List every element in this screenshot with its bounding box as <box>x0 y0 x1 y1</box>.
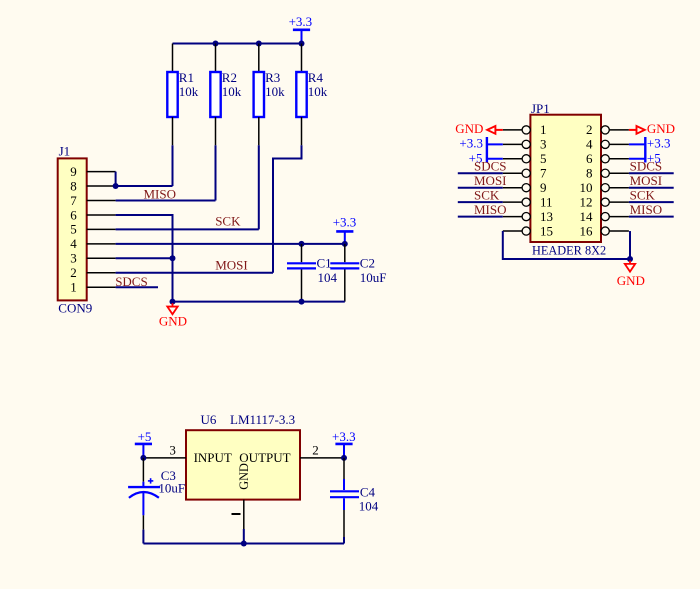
junction pins 8/9 <box>113 183 119 189</box>
JP1 pin 11 lead <box>503 201 522 203</box>
svg-text:6: 6 <box>70 207 77 222</box>
svg-text:MOSI: MOSI <box>630 173 663 188</box>
svg-text:14: 14 <box>580 209 594 224</box>
ground GND symbol (J1 section) <box>159 303 187 328</box>
JP1 pin 1 circle <box>522 126 530 134</box>
resistor R3 <box>254 44 264 146</box>
JP1 pin 4 lead <box>609 143 629 145</box>
svg-text:+3.3: +3.3 <box>332 429 356 444</box>
JP1 pin 5 lead <box>503 158 522 160</box>
wire U6 ground rail <box>143 543 344 545</box>
svg-text:SCK: SCK <box>215 214 241 229</box>
JP1 pin 12 circle <box>601 198 609 206</box>
wire pin15 to GND rail <box>503 231 630 259</box>
wire R1 to MISO row (pin8 net) <box>172 145 174 186</box>
wire GND rail under J1 section <box>173 301 345 303</box>
J1 pin 3 lead <box>87 257 116 259</box>
svg-text:1: 1 <box>540 122 547 137</box>
JP1 pin 2 lead <box>609 129 629 131</box>
svg-text:R3: R3 <box>265 70 280 85</box>
resistor R1 <box>167 44 177 146</box>
svg-text:3: 3 <box>169 442 176 457</box>
svg-text:SCK: SCK <box>630 188 656 203</box>
wire SCK left of JP1 <box>458 201 503 203</box>
U6 GND pin lead <box>243 500 245 529</box>
wire pin4 net +3.3 rail to C2 <box>116 243 345 245</box>
wire MISO left of JP1 <box>458 216 503 218</box>
svg-text:SDCS: SDCS <box>474 159 507 174</box>
JP1 pin 12 lead <box>609 201 629 203</box>
JP1 pin 6 lead <box>609 158 629 160</box>
junction GND rail at pin6 drop <box>170 299 176 305</box>
JP1 pin 10 circle <box>601 184 609 192</box>
junction +3.3 / C4 / pin2 <box>341 455 347 461</box>
wire MOSI right of JP1 <box>629 187 674 189</box>
svg-text:1: 1 <box>70 280 77 295</box>
capacitor C3 (polarized) <box>128 458 160 544</box>
svg-text:5: 5 <box>70 222 77 237</box>
svg-text:C2: C2 <box>360 256 375 271</box>
svg-text:10k: 10k <box>308 84 328 99</box>
power +3.3 left of pin 3 <box>459 135 502 162</box>
svg-text:GND: GND <box>617 273 645 288</box>
connector JP1 <box>530 115 601 242</box>
JP1 pin 11 circle <box>522 198 530 206</box>
JP1 pin 16 circle <box>601 227 609 235</box>
power GND arrow left of pin 1 <box>455 121 503 136</box>
svg-text:10k: 10k <box>265 84 285 99</box>
svg-text:GND: GND <box>159 313 187 328</box>
JP1 pin 6 circle <box>601 155 609 163</box>
wire pin9 down to pin8 row <box>115 172 117 186</box>
svg-text:U6: U6 <box>201 412 217 427</box>
J1 pin 6 lead <box>87 214 116 216</box>
wire pin7 net MISO to R2 <box>116 200 216 202</box>
svg-text:10k: 10k <box>222 84 242 99</box>
wire MOSI left of JP1 <box>458 187 503 189</box>
svg-text:GND: GND <box>647 121 675 136</box>
svg-text:16: 16 <box>580 223 594 238</box>
svg-text:+3.3: +3.3 <box>459 135 483 150</box>
JP1 pin 5 circle <box>522 155 530 163</box>
wire pin5 net SCK to R3 <box>116 228 259 230</box>
svg-text:5: 5 <box>540 151 547 166</box>
power +5 left of pin 5 <box>469 151 503 166</box>
svg-text:9: 9 <box>540 180 547 195</box>
JP1 pin 15 circle <box>522 227 530 235</box>
resistor R4 <box>296 44 306 146</box>
U6 pin 3 lead <box>146 457 186 459</box>
power +5 right of pin 6 <box>629 151 661 166</box>
resistor R2 <box>210 44 220 146</box>
junction ground rail at U6 GND <box>241 541 247 547</box>
J1 pin 5 lead <box>87 228 116 230</box>
svg-text:4: 4 <box>586 137 593 152</box>
svg-text:C1: C1 <box>317 256 332 271</box>
svg-text:13: 13 <box>540 209 553 224</box>
U6 pin 2 lead <box>300 457 342 459</box>
J1 pin 9 lead <box>87 171 116 173</box>
JP1 pin 3 circle <box>522 140 530 148</box>
svg-text:R1: R1 <box>179 70 194 85</box>
svg-text:J1: J1 <box>59 143 71 158</box>
svg-text:7: 7 <box>70 193 77 208</box>
svg-text:10: 10 <box>580 180 593 195</box>
wire pin6 to GND rail <box>116 215 173 302</box>
wire pin1 net SDCS stub <box>116 286 158 288</box>
junction GND rail at C1 <box>299 299 305 305</box>
svg-text:MISO: MISO <box>474 202 507 217</box>
svg-text:12: 12 <box>580 194 593 209</box>
svg-text:+5: +5 <box>647 151 661 166</box>
svg-text:3: 3 <box>540 137 547 152</box>
svg-text:LM1117-3.3: LM1117-3.3 <box>230 412 295 427</box>
junction C1 top on +3.3 rail <box>299 241 305 247</box>
junction +5 / C3 / pin3 <box>140 455 146 461</box>
svg-text:OUTPUT: OUTPUT <box>239 450 290 465</box>
svg-text:10k: 10k <box>179 84 199 99</box>
svg-text:15: 15 <box>540 223 553 238</box>
svg-text:8: 8 <box>586 166 593 181</box>
svg-text:+3.3: +3.3 <box>647 135 671 150</box>
wire MISO right of JP1 <box>629 216 674 218</box>
JP1 pin 8 lead <box>609 172 629 174</box>
wire pin3 to GND drop <box>116 257 173 259</box>
J1 pin 8 lead <box>87 185 116 187</box>
svg-text:R2: R2 <box>222 70 237 85</box>
ground GND symbol (JP1) <box>617 261 645 289</box>
junction pin3 on GND drop <box>170 255 176 261</box>
U6 GND pin dash marker <box>232 513 241 515</box>
svg-text:8: 8 <box>70 178 77 193</box>
JP1 pin 2 circle <box>601 126 609 134</box>
power GND arrow right of pin 2 <box>629 121 675 136</box>
junction JP1 GND rail <box>627 256 633 262</box>
svg-text:R4: R4 <box>308 70 324 85</box>
wire R2 down to pin7 row <box>215 145 217 200</box>
svg-text:HEADER 8X2: HEADER 8X2 <box>532 244 606 258</box>
svg-text:3: 3 <box>70 251 77 266</box>
svg-text:MOSI: MOSI <box>215 257 248 272</box>
JP1 pin 10 lead <box>609 187 629 189</box>
junction C2 top on +3.3 rail <box>342 241 348 247</box>
svg-text:+3.3: +3.3 <box>289 14 313 29</box>
svg-text:GND: GND <box>455 121 483 136</box>
svg-text:2: 2 <box>70 265 77 280</box>
svg-text:9: 9 <box>70 164 77 179</box>
capacitor C1 <box>287 244 316 302</box>
svg-text:10uF: 10uF <box>158 481 185 496</box>
junction on bus at R3 <box>256 41 262 47</box>
svg-text:SCK: SCK <box>474 188 500 203</box>
regulator U6 <box>186 430 300 499</box>
svg-text:104: 104 <box>359 499 379 514</box>
svg-text:JP1: JP1 <box>531 101 550 116</box>
wire R3 down to pin5 row <box>258 145 260 229</box>
J1 pin 2 lead <box>87 272 116 274</box>
svg-text:MOSI: MOSI <box>474 173 507 188</box>
wire pin16 down to GND rail <box>629 231 631 259</box>
JP1 pin 13 circle <box>522 213 530 221</box>
wire SCK right of JP1 <box>629 201 674 203</box>
svg-text:+3.3: +3.3 <box>333 215 357 230</box>
svg-text:6: 6 <box>586 151 593 166</box>
power +3.3 right of pin 4 <box>629 135 671 162</box>
JP1 pin 13 lead <box>503 216 522 218</box>
wire: +3.3 bus along top of resistors <box>173 43 302 45</box>
svg-text:MISO: MISO <box>630 202 663 217</box>
svg-text:MISO: MISO <box>144 186 177 201</box>
svg-text:7: 7 <box>540 166 547 181</box>
JP1 pin 7 lead <box>503 172 522 174</box>
svg-text:C4: C4 <box>360 484 376 499</box>
junction on bus at R4 / +3.3 <box>299 41 305 47</box>
JP1 pin 1 lead <box>503 129 522 131</box>
capacitor C2 <box>330 244 359 302</box>
JP1 pin 9 circle <box>522 184 530 192</box>
JP1 pin 14 lead <box>609 216 629 218</box>
JP1 pin 7 circle <box>522 169 530 177</box>
wire SDCS right of JP1 <box>629 172 674 174</box>
svg-text:+5: +5 <box>138 429 152 444</box>
JP1 pin 4 circle <box>601 140 609 148</box>
wire SDCS left of JP1 <box>458 172 503 174</box>
wire R4 jog down to MOSI row <box>273 145 302 272</box>
wire U6 GND pin to rail <box>243 529 245 544</box>
junction on bus at R2 <box>213 41 219 47</box>
JP1 pin 8 circle <box>601 169 609 177</box>
svg-text:GND: GND <box>237 463 251 490</box>
svg-text:2: 2 <box>586 122 593 137</box>
JP1 pin 14 circle <box>601 213 609 221</box>
JP1 pin 15 lead <box>503 230 522 232</box>
svg-text:11: 11 <box>540 194 553 209</box>
svg-text:CON9: CON9 <box>58 300 92 315</box>
svg-text:INPUT: INPUT <box>194 450 232 465</box>
J1 pin 7 lead <box>87 200 116 202</box>
wire pin8 net to R1 <box>116 185 173 187</box>
JP1 pin 9 lead <box>503 187 522 189</box>
svg-text:4: 4 <box>70 236 77 251</box>
JP1 pin 3 lead <box>503 143 522 145</box>
svg-text:10uF: 10uF <box>360 270 387 285</box>
wire pin2 net MOSI to R4 <box>116 272 273 274</box>
svg-text:104: 104 <box>318 270 338 285</box>
capacitor C4 <box>330 458 359 544</box>
connector J1 <box>58 158 87 300</box>
J1 pin 1 lead <box>87 286 116 288</box>
JP1 pin 16 lead <box>609 230 629 232</box>
J1 pin 4 lead <box>87 243 116 245</box>
svg-text:2: 2 <box>312 442 319 457</box>
